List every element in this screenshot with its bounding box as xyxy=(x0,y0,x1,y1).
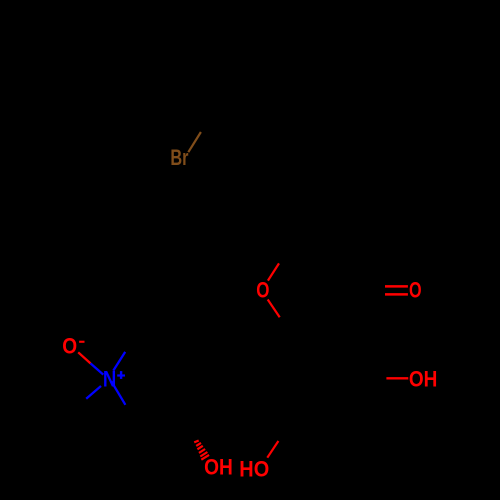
charge minus on O xyxy=(79,341,84,343)
hash 3 xyxy=(197,446,202,450)
bond N-C half down-right (blue) xyxy=(111,381,125,405)
hashed wedge bond to OH (red), hash 1 xyxy=(194,441,199,443)
bond N-C half up-right (blue) xyxy=(113,352,125,371)
bond C-Br half (brown) xyxy=(188,132,201,152)
bond O-C half (red) xyxy=(267,441,278,458)
charge plus on N (horizontal stroke) xyxy=(117,374,125,376)
bond O-C lower half (red) xyxy=(268,300,280,318)
double bond C=O half line 1 (red) xyxy=(385,285,408,288)
hash 2 xyxy=(196,443,201,446)
hash 4 xyxy=(199,449,205,453)
svg-text:HO: HO xyxy=(239,456,269,481)
bond O-C upper half (red) xyxy=(268,263,279,280)
double bond C=O half line 2 (red) xyxy=(385,293,408,296)
svg-text:O: O xyxy=(62,334,77,359)
svg-text:OH: OH xyxy=(204,455,233,480)
svg-text:Br: Br xyxy=(170,145,188,170)
svg-text:O: O xyxy=(256,278,269,303)
bond C-OH half (red) xyxy=(386,377,408,379)
hash 5 xyxy=(200,452,207,457)
svg-text:OH: OH xyxy=(409,367,438,392)
bond O-N half near N (blue) xyxy=(91,363,104,374)
bond O-N half near O (red) xyxy=(78,352,90,363)
svg-text:O: O xyxy=(409,278,422,303)
hash 6 xyxy=(201,455,209,460)
bond N-CH3 half down-left (blue) xyxy=(86,386,101,399)
charge plus on N (vertical stroke) xyxy=(120,371,122,379)
